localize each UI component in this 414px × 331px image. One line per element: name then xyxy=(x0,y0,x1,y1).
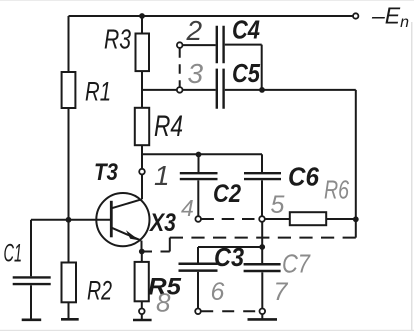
capacitor C3 xyxy=(179,264,218,271)
pin 8 xyxy=(139,309,145,315)
ground C1 xyxy=(22,318,42,321)
svg-text:R6: R6 xyxy=(324,175,349,205)
node emitter junction xyxy=(139,249,145,255)
resistor R4 xyxy=(135,108,149,145)
wire R2 to ground xyxy=(68,302,70,319)
capacitor C7 xyxy=(244,264,281,271)
transistor T3 base bar xyxy=(110,201,113,238)
wire pin3 to C5 xyxy=(183,89,216,91)
capacitor C1 xyxy=(13,277,51,284)
border artifact top xyxy=(0,0,414,1)
capacitor C6 xyxy=(244,173,281,179)
node C3 tee junction xyxy=(259,244,265,250)
wire R4 down to pin 1 xyxy=(141,145,143,168)
svg-text:T3: T3 xyxy=(94,159,119,186)
pin 2 xyxy=(177,42,183,48)
capacitor C5 xyxy=(217,69,224,109)
svg-text:3: 3 xyxy=(188,58,204,89)
wire dashed X3 boundary from emitter xyxy=(144,251,169,253)
resistor R1 xyxy=(62,72,76,108)
pin 6 xyxy=(195,309,201,315)
node C2 top junction xyxy=(196,152,202,158)
svg-text:R2: R2 xyxy=(87,276,112,306)
transistor T3 circle xyxy=(96,193,149,246)
wire top rail to R3 xyxy=(141,16,143,34)
svg-text:4: 4 xyxy=(181,195,194,221)
capacitor C4 xyxy=(217,26,224,63)
svg-text:1: 1 xyxy=(154,160,170,191)
wire C1 stub top xyxy=(30,220,32,276)
wire dashed pin6-pin7 xyxy=(201,310,259,312)
node top rail junction xyxy=(139,13,145,19)
wire R6 to right rail xyxy=(326,218,356,220)
wire pin1 to collector xyxy=(141,175,143,200)
svg-text:R1: R1 xyxy=(85,77,111,107)
transistor T3 emitter stroke xyxy=(112,228,141,241)
pin 5 xyxy=(259,216,265,222)
wire pin5 to R6 xyxy=(265,218,290,220)
node R6 right junction xyxy=(353,216,359,222)
svg-text:6: 6 xyxy=(211,278,225,306)
wire R1 to base junction to R2 xyxy=(68,108,70,263)
svg-text:C7: C7 xyxy=(282,249,311,279)
svg-text:C1: C1 xyxy=(4,240,23,268)
svg-text:X3: X3 xyxy=(148,209,176,237)
wire dashed X3 boundary horizontal xyxy=(170,237,356,239)
resistor R6 xyxy=(290,212,326,225)
resistor R3 xyxy=(136,34,150,72)
wire left vertical xyxy=(68,16,70,72)
svg-text:C4: C4 xyxy=(232,15,260,45)
transistor Q T3 collector stroke xyxy=(112,199,142,208)
wire dashed pin4-pin5 xyxy=(201,218,258,220)
wire right vertical rail xyxy=(355,90,357,238)
pin 1 xyxy=(139,169,145,175)
pin 3 xyxy=(177,87,183,93)
wire C3 top link xyxy=(198,247,262,263)
svg-text:C3: C3 xyxy=(214,242,244,272)
wire C2 top stub xyxy=(198,155,200,173)
svg-text:C5: C5 xyxy=(232,58,260,88)
ground R5 xyxy=(133,319,152,322)
wire R3 to R4 xyxy=(141,71,143,108)
capacitor C2 xyxy=(180,173,218,179)
ground R2 xyxy=(61,318,79,321)
resistor R5 xyxy=(135,262,149,301)
svg-text:C6: C6 xyxy=(288,162,319,192)
wire C1 to ground xyxy=(30,285,32,319)
wire C7 to pin 7 xyxy=(261,272,263,308)
border artifact bottom xyxy=(0,330,414,331)
terminal -En xyxy=(353,13,358,18)
wire pin5 down to C7 xyxy=(261,222,263,263)
border artifact right xyxy=(411,22,412,331)
transistor T3 emitter arrowhead xyxy=(126,230,140,240)
wire C2 bottom stub xyxy=(197,180,199,216)
wire C3 to pin 6 xyxy=(197,272,199,309)
svg-text:R3: R3 xyxy=(104,24,131,55)
wire R3R4 tee to pin3 xyxy=(142,89,177,91)
wire dashed pin2-pin3 xyxy=(179,48,181,87)
wire C4 to corner xyxy=(225,45,262,90)
wire emitter to R5 xyxy=(141,252,143,262)
svg-text:R4: R4 xyxy=(154,110,183,143)
svg-text:2: 2 xyxy=(186,15,203,46)
wire C6 top stub xyxy=(261,154,263,172)
wire pin8 to ground xyxy=(141,314,143,319)
wire base xyxy=(31,219,111,221)
ground pin7 xyxy=(248,318,278,321)
wire X3 boundary step xyxy=(169,238,171,252)
wire C6 bottom stub xyxy=(261,180,263,215)
pin 7 xyxy=(260,309,266,315)
wire emitter down xyxy=(141,241,143,252)
resistor R2 xyxy=(62,263,77,303)
node C5 output junction xyxy=(259,87,265,93)
svg-text:8: 8 xyxy=(156,288,171,318)
wire pin7 to ground xyxy=(261,314,263,319)
wire pin2 to C4 xyxy=(183,44,216,46)
wire C5 to right rail xyxy=(225,89,356,91)
wire tee at 154 to capacitors xyxy=(142,153,262,155)
node base junction xyxy=(66,217,72,223)
svg-text:–En: –En xyxy=(371,3,409,32)
wire top rail xyxy=(69,15,353,17)
svg-text:5: 5 xyxy=(271,191,285,219)
wire R5 to pin 8 xyxy=(141,301,143,308)
pin 4 xyxy=(195,216,201,222)
svg-text:7: 7 xyxy=(274,278,289,306)
svg-text:C2: C2 xyxy=(213,180,241,208)
